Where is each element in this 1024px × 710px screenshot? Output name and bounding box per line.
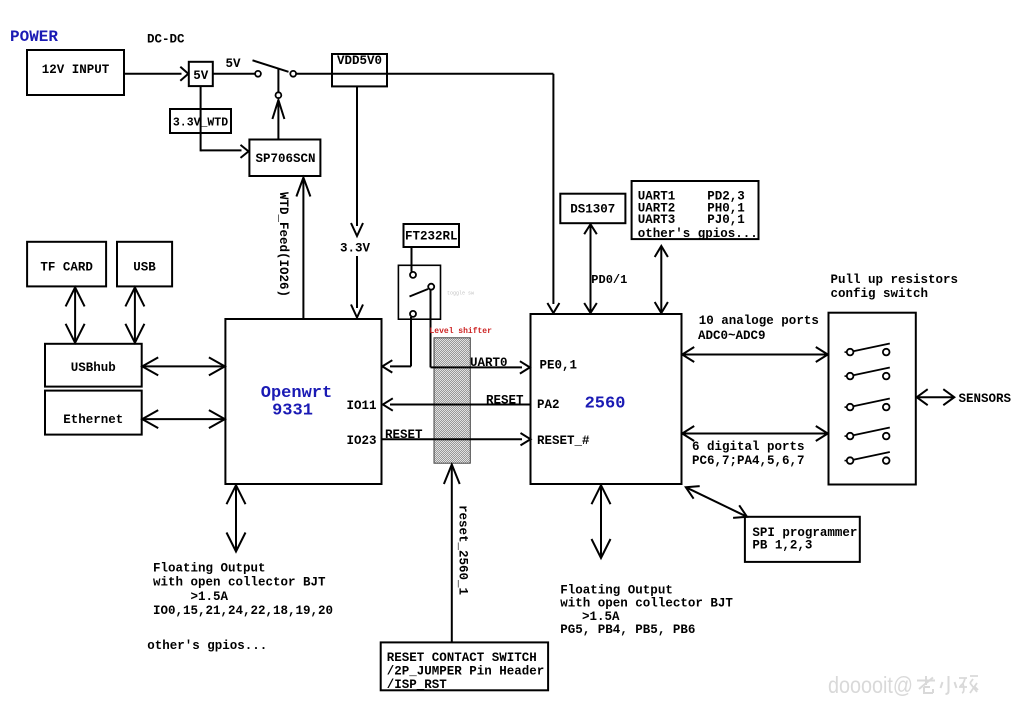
- svg-text:Pull up resistors: Pull up resistors: [831, 273, 959, 287]
- label 3.3V: [340, 242, 371, 256]
- svg-text:Level shifter: Level shifter: [430, 327, 493, 336]
- label RESET lower: [385, 428, 423, 442]
- label UART0: [470, 356, 508, 370]
- switch SW7 dip position 5: [845, 452, 890, 464]
- label toggle sw: [447, 291, 474, 297]
- switch SW2 contact top: [410, 272, 416, 278]
- svg-text:reset_2560_1: reset_2560_1: [456, 505, 470, 595]
- svg-text:3.3V: 3.3V: [340, 242, 371, 256]
- wire SENSORS: [917, 389, 955, 405]
- switch SW2 contact bottom: [410, 311, 416, 317]
- svg-text:Floating Output: Floating Output: [153, 562, 266, 576]
- svg-text:with open collector BJT: with open collector BJT: [560, 597, 733, 611]
- block FT232RL U3: [404, 224, 460, 247]
- switch SW2 lever: [410, 289, 429, 297]
- switch SW2 toggle box: [398, 265, 440, 319]
- wire FT232RL to toggle switch: [411, 247, 413, 272]
- switch SW5 dip position 3: [845, 399, 890, 411]
- pin label PE0,1: [540, 359, 578, 373]
- svg-text:12V INPUT: 12V INPUT: [42, 63, 110, 77]
- switch SW3 dip position 1: [845, 344, 890, 356]
- wire VDD5V0 rail: [296, 73, 553, 75]
- svg-text:RESET: RESET: [486, 394, 524, 408]
- wire DS1307 to 2560 PD0/1: [584, 224, 597, 313]
- block level shifter U4 hatched: [434, 338, 470, 463]
- switch SW1 contact A: [255, 71, 261, 77]
- wire UART0 to 2560 PE0: [431, 361, 530, 373]
- wire analog bus 2560 to pull-up box: [682, 347, 828, 362]
- svg-text:dooooit@: dooooit@: [828, 672, 913, 698]
- label 2560: [585, 395, 626, 414]
- svg-text:DS1307: DS1307: [570, 203, 615, 217]
- wire TF CARD to USBhub: [66, 287, 85, 342]
- block Ethernet: [45, 391, 142, 435]
- wire 5V to SP706SCN: [201, 86, 249, 158]
- wire 3.3V lower segment to Openwrt: [351, 256, 363, 318]
- svg-text:POWER: POWER: [10, 28, 58, 46]
- svg-text:PA2: PA2: [537, 398, 560, 412]
- wire 5V to switch: [213, 73, 255, 75]
- svg-text:DC-DC: DC-DC: [147, 33, 185, 47]
- svg-text:FT232RL: FT232RL: [405, 230, 458, 244]
- label 2560 floating output note: [560, 584, 733, 638]
- wire VDD5V0 3.3V upper segment: [351, 86, 363, 236]
- label RESET upper: [486, 394, 524, 408]
- svg-text:USBhub: USBhub: [71, 361, 116, 375]
- svg-text:Ethernet: Ethernet: [63, 413, 123, 427]
- label Level shifter: [430, 327, 493, 336]
- wire 12V INPUT to 5V regulator: [124, 67, 188, 81]
- label Openwrt: [261, 384, 332, 403]
- label PD0/1: [591, 273, 627, 287]
- svg-text:IO23: IO23: [347, 434, 377, 448]
- switch SW1 contact C: [290, 71, 296, 77]
- svg-text:/2P_JUMPER Pin Header: /2P_JUMPER Pin Header: [387, 665, 545, 679]
- svg-text:RESET CONTACT SWITCH: RESET CONTACT SWITCH: [387, 651, 537, 665]
- switch SW1 lever: [253, 60, 289, 72]
- wire SPI programmer to 2560: [686, 486, 747, 518]
- switch SW2 contact mid: [428, 284, 434, 290]
- svg-text:2560: 2560: [585, 395, 626, 414]
- switch SW4 dip position 2: [845, 368, 890, 380]
- svg-text:PJ0,1: PJ0,1: [707, 213, 745, 227]
- label 5V net: [226, 57, 242, 71]
- block SPI programmer: [745, 517, 860, 562]
- wire UART table to 2560: [655, 246, 668, 313]
- block Openwrt 9331 U5: [225, 319, 381, 484]
- svg-text:TF CARD: TF CARD: [40, 261, 93, 275]
- svg-text:with open collector BJT: with open collector BJT: [153, 576, 326, 590]
- svg-text:9331: 9331: [272, 402, 313, 421]
- label Openwrt floating output note: [153, 562, 333, 619]
- wire Ethernet to Openwrt: [142, 410, 225, 428]
- wire SP706SCN reset to SW1 pole: [272, 100, 284, 140]
- svg-text:/ISP_RST: /ISP_RST: [387, 678, 448, 692]
- label 6 digital ports: [692, 440, 805, 468]
- label reset_2560_1: [456, 505, 470, 595]
- block 3.3V_WTD: [170, 109, 231, 133]
- svg-text:toggle sw: toggle sw: [447, 291, 474, 297]
- svg-text:UART3: UART3: [638, 213, 676, 227]
- block ATmega 2560 U6: [531, 314, 682, 484]
- wire USB to USBhub: [125, 287, 144, 342]
- pin label PA2: [537, 398, 560, 412]
- svg-text:other's gpios...: other's gpios...: [147, 639, 267, 653]
- wire reset_2560_1: [444, 465, 460, 643]
- svg-text:PB 1,2,3: PB 1,2,3: [752, 539, 812, 553]
- svg-text:UART0: UART0: [470, 356, 508, 370]
- svg-text:USB: USB: [133, 261, 156, 275]
- svg-text:RESET_#: RESET_#: [537, 434, 590, 448]
- wire RESET from Openwrt IO23 to 2560 RESET_#: [382, 433, 531, 445]
- svg-text:5V: 5V: [193, 69, 209, 83]
- pin label RESET_#: [537, 434, 590, 448]
- block pull-up config switch bank: [829, 313, 916, 485]
- svg-text:IO11: IO11: [347, 399, 377, 413]
- label DC-DC: [147, 33, 185, 47]
- block UART mapping table: [632, 181, 759, 241]
- label 9331: [272, 402, 313, 421]
- wire USBhub to Openwrt: [142, 357, 225, 375]
- svg-text:SENSORS: SENSORS: [959, 392, 1012, 406]
- label 10 analoge ports: [698, 314, 819, 343]
- svg-text:Floating Output: Floating Output: [560, 584, 673, 598]
- label WTD_Feed(IO26): [276, 192, 290, 297]
- svg-text:PD0/1: PD0/1: [591, 273, 627, 287]
- svg-text:SP706SCN: SP706SCN: [255, 152, 315, 166]
- svg-text:10 analoge ports: 10 analoge ports: [699, 314, 819, 328]
- label SENSORS: [959, 392, 1012, 406]
- wire RESET from 2560 PA2 to Openwrt IO11: [383, 398, 531, 410]
- wire SW1 pole stub: [277, 69, 279, 93]
- switch SW6 dip position 4: [845, 428, 890, 440]
- svg-text:IO0,15,21,24,22,18,19,20: IO0,15,21,24,22,18,19,20: [153, 604, 333, 618]
- block RESET CONTACT SWITCH: [381, 642, 548, 692]
- svg-text:WTD_Feed(IO26): WTD_Feed(IO26): [276, 192, 290, 297]
- block SP706SCN watchdog U2: [249, 140, 320, 177]
- switch SW1 pole node: [276, 92, 282, 98]
- label other's gpios: [147, 639, 267, 653]
- svg-text:ADC0~ADC9: ADC0~ADC9: [698, 329, 766, 343]
- svg-text:>1.5A: >1.5A: [191, 590, 229, 604]
- svg-text:>1.5A: >1.5A: [582, 610, 620, 624]
- block 12V INPUT: [27, 50, 124, 95]
- label Pull up resistors config switch: [831, 273, 959, 301]
- block DS1307 RTC U7: [560, 194, 625, 224]
- wire rail drop to 2560: [547, 74, 559, 313]
- pin label IO11: [347, 399, 377, 413]
- block USBhub: [45, 344, 142, 387]
- block 5V regulator: [189, 62, 213, 86]
- watermark dooooit: [828, 672, 978, 698]
- pin label IO23: [347, 434, 377, 448]
- svg-text:RESET: RESET: [385, 428, 423, 442]
- svg-text:PG5, PB4, PB5, PB6: PG5, PB4, PB5, PB6: [560, 623, 695, 637]
- wire WTD_Feed from Openwrt to SP706SCN: [296, 178, 310, 319]
- wire Openwrt floating output: [227, 485, 246, 551]
- svg-text:PC6,7;PA4,5,6,7: PC6,7;PA4,5,6,7: [692, 454, 805, 468]
- wire SW2 mid to UART0 line: [430, 290, 432, 368]
- svg-text:other's gpios...: other's gpios...: [638, 227, 758, 241]
- svg-text:Openwrt: Openwrt: [261, 384, 332, 403]
- svg-text:PE0,1: PE0,1: [540, 359, 578, 373]
- svg-text:config switch: config switch: [831, 287, 929, 301]
- wire digital bus 2560 to pull-up box: [682, 426, 828, 441]
- label POWER: [10, 28, 58, 46]
- block VDD5V0: [332, 54, 387, 86]
- svg-text:6 digital ports: 6 digital ports: [692, 440, 805, 454]
- wire SW2 bottom to Openwrt UART: [382, 317, 411, 373]
- block USB: [117, 242, 172, 287]
- svg-text:VDD5V0: VDD5V0: [337, 54, 382, 68]
- svg-text:5V: 5V: [226, 57, 242, 71]
- wire 2560 floating output: [592, 485, 611, 558]
- block TF CARD: [27, 242, 106, 287]
